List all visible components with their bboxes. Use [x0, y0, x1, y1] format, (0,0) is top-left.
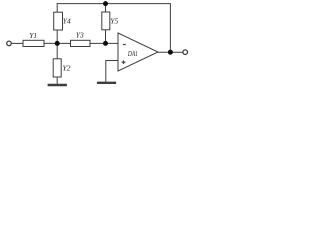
wire Y4 top to top rail	[57, 4, 170, 53]
svg-text:Y3: Y3	[76, 30, 84, 39]
wire node A down to Y2	[56, 43, 58, 58]
resistor Y2	[53, 59, 61, 77]
svg-text:Y5: Y5	[110, 17, 118, 26]
top rail junction dot	[103, 1, 108, 6]
node B junction dot	[103, 41, 108, 46]
svg-text:DA1: DA1	[127, 49, 138, 58]
ground 1	[48, 84, 67, 86]
wire Y5 bottom to node B	[105, 30, 107, 44]
resistor Y1	[23, 40, 44, 46]
node A junction dot	[55, 41, 60, 46]
svg-text:Y2: Y2	[63, 64, 71, 73]
wire plus input	[106, 61, 118, 82]
output terminal	[183, 50, 188, 55]
plus sign	[122, 61, 126, 63]
wire Y5 top rail to resistor	[105, 4, 107, 12]
svg-text:Y1: Y1	[29, 31, 37, 40]
minus sign	[123, 44, 126, 46]
wire Y3 to node B	[90, 42, 118, 44]
wire node A up to Y4	[56, 30, 58, 43]
output junction dot	[168, 50, 173, 55]
wire Y2 to ground	[56, 77, 58, 84]
wire input to Y1	[11, 42, 23, 44]
wire Y1 to node A	[44, 42, 71, 44]
input terminal	[7, 41, 12, 46]
resistor Y3	[71, 40, 91, 46]
resistor Y5	[102, 12, 110, 30]
resistor Y4	[54, 12, 63, 30]
wire output	[158, 51, 183, 53]
op-amp DA1 triangle	[118, 33, 158, 71]
svg-text:Y4: Y4	[63, 16, 71, 25]
ground 2	[97, 82, 116, 84]
